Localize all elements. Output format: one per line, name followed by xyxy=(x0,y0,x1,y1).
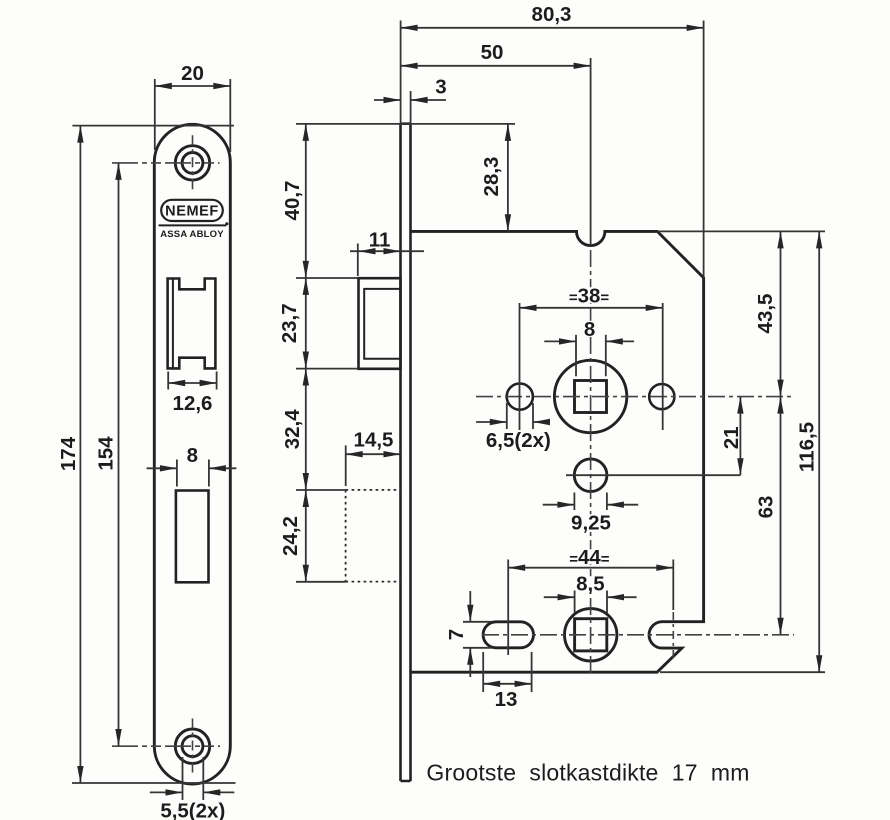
svg-text:23,7: 23,7 xyxy=(278,303,301,343)
svg-text:14,5: 14,5 xyxy=(354,429,394,452)
svg-text:24,2: 24,2 xyxy=(279,516,302,556)
svg-text:NEMEF: NEMEF xyxy=(165,204,219,220)
svg-text:7: 7 xyxy=(445,629,468,640)
svg-text:Grootste slotkastdikte 17 m: Grootste slotkastdikte 17 mm xyxy=(426,760,749,786)
svg-text:32,4: 32,4 xyxy=(281,409,304,449)
svg-text:13: 13 xyxy=(495,688,518,711)
svg-text:28,3: 28,3 xyxy=(480,157,503,197)
svg-text:6,5(2x): 6,5(2x) xyxy=(486,429,551,452)
svg-text:20: 20 xyxy=(181,62,204,85)
svg-text:80,3: 80,3 xyxy=(532,3,572,26)
svg-text:12,6: 12,6 xyxy=(173,392,213,415)
svg-text:174: 174 xyxy=(57,436,80,471)
svg-text:63: 63 xyxy=(755,496,778,519)
svg-text:11: 11 xyxy=(369,228,391,251)
svg-text:50: 50 xyxy=(481,41,504,64)
svg-text:43,5: 43,5 xyxy=(754,294,777,334)
svg-text:21: 21 xyxy=(720,426,743,449)
svg-text:8: 8 xyxy=(187,444,198,467)
svg-text:5,5(2x): 5,5(2x) xyxy=(160,800,225,820)
svg-text:40,7: 40,7 xyxy=(281,181,304,221)
svg-text:8,5: 8,5 xyxy=(576,572,605,595)
svg-text:8: 8 xyxy=(584,318,595,341)
svg-text:9,25: 9,25 xyxy=(571,511,611,534)
svg-text:116,5: 116,5 xyxy=(796,422,819,472)
svg-text:3: 3 xyxy=(435,75,446,98)
svg-text:ASSA ABLOY: ASSA ABLOY xyxy=(160,229,224,240)
svg-text:154: 154 xyxy=(95,436,118,471)
